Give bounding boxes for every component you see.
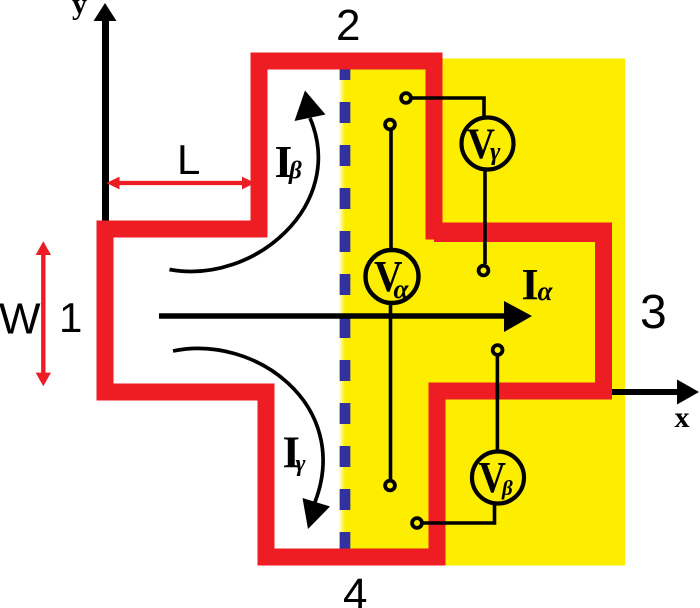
svg-text:L: L: [177, 136, 200, 183]
probe terminal (right arm bottom): [493, 345, 503, 355]
svg-text:γ: γ: [296, 451, 306, 477]
wire from Vgamma down to right-arm probe: [483, 170, 487, 264]
current arrow Ialpha: [159, 301, 532, 332]
probe terminal (bottom arm right): [412, 518, 422, 528]
svg-text:x: x: [675, 401, 690, 434]
dimension arrow L: [106, 177, 255, 190]
svg-text:β: β: [288, 158, 302, 185]
x-axis: [602, 380, 699, 405]
red cross-shaped device outline: [105, 61, 604, 557]
probe terminal (top, on dashed line side): [385, 120, 395, 130]
wire from right-arm bottom probe to Vbeta: [496, 355, 500, 453]
svg-text:4: 4: [343, 570, 367, 608]
dimension arrow W: [36, 241, 51, 386]
blue dashed gate boundary line: [340, 59, 351, 556]
svg-text:α: α: [394, 274, 410, 304]
svg-text:I: I: [522, 260, 539, 309]
current arrow Ibeta (curved): [170, 91, 326, 272]
y-axis: [94, 3, 117, 229]
voltmeter Vgamma: [462, 118, 514, 170]
svg-text:y: y: [72, 0, 87, 21]
svg-text:W: W: [0, 295, 41, 344]
svg-text:β: β: [501, 476, 513, 500]
voltmeter Valpha: [366, 250, 419, 304]
svg-text:α: α: [538, 276, 554, 306]
wire from Vbeta to bottom-arm probe: [423, 502, 495, 523]
probe terminal (bottom, on dashed line side): [385, 481, 395, 491]
wire from Valpha down to bottom probe: [389, 305, 393, 480]
voltmeter Vbeta: [472, 452, 524, 504]
svg-text:1: 1: [59, 294, 82, 341]
probe terminal (top arm right): [401, 93, 411, 103]
svg-text:3: 3: [640, 286, 667, 339]
svg-text:γ: γ: [490, 139, 501, 166]
probe terminal (right arm top): [479, 266, 489, 276]
wire from top-left probe to Vgamma: [412, 98, 484, 120]
svg-text:2: 2: [336, 1, 360, 50]
wire from top probe to Valpha: [389, 130, 393, 250]
current arrow Igamma (curved): [173, 348, 330, 529]
red outline: thicker top edge of right arm: [434, 223, 600, 242]
